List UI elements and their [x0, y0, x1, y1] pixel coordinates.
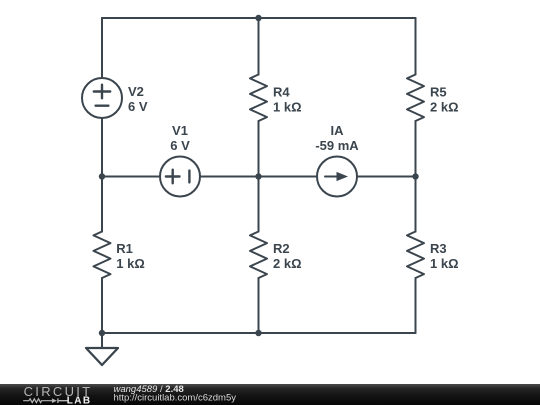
wire V1 to mid junction	[200, 176, 259, 178]
svg-text:6 V: 6 V	[128, 99, 148, 114]
svg-text:1 kΩ: 1 kΩ	[273, 100, 302, 115]
svg-text:V1: V1	[172, 123, 188, 138]
voltage source V1	[160, 157, 200, 197]
svg-text:LAB: LAB	[67, 396, 92, 405]
label R2 value	[273, 241, 302, 271]
node junction top	[255, 15, 261, 21]
label R3 value	[430, 241, 459, 271]
label R4 value	[273, 85, 302, 115]
svg-text:R4: R4	[273, 85, 290, 100]
node junction bottom-left	[99, 330, 105, 336]
wire mid column top lead	[258, 18, 260, 75]
CircuitLab logo diode arrow	[52, 398, 57, 403]
label V2 value	[128, 84, 148, 114]
svg-text:1 kΩ: 1 kΩ	[116, 256, 145, 271]
wire R4 to middle rail	[258, 121, 260, 177]
svg-text:2 kΩ: 2 kΩ	[430, 100, 459, 115]
current source IA	[317, 157, 357, 197]
wire V2 to middle rail	[101, 118, 103, 177]
CircuitLab logo squiggle wire	[23, 399, 52, 403]
wire left column top (to V2)	[101, 18, 103, 78]
svg-text:IA: IA	[331, 123, 345, 138]
footer bar	[0, 384, 540, 405]
wire right column top lead	[415, 18, 417, 75]
wire R5 to middle rail	[415, 121, 417, 177]
svg-text:R2: R2	[273, 241, 290, 256]
label IA value	[315, 123, 359, 153]
svg-text:1 kΩ: 1 kΩ	[430, 256, 459, 271]
resistor R1	[94, 232, 111, 279]
wire IA to right column	[357, 176, 416, 178]
wire R2 to bottom rail	[258, 278, 260, 333]
svg-text:http://circuitlab.com/c6zdm5y: http://circuitlab.com/c6zdm5y	[114, 393, 237, 404]
svg-text:R5: R5	[430, 85, 447, 100]
svg-text:-59 mA: -59 mA	[315, 138, 359, 153]
resistor R2	[250, 232, 267, 279]
resistor R3	[407, 232, 424, 279]
resistor R4	[250, 75, 267, 122]
svg-text:2 kΩ: 2 kΩ	[273, 256, 302, 271]
label V1 value	[170, 123, 190, 153]
wire top rail	[102, 17, 416, 19]
wire right column to R3	[415, 177, 417, 232]
node junction mid-left	[99, 173, 105, 179]
svg-text:R3: R3	[430, 241, 447, 256]
svg-text:R1: R1	[116, 241, 133, 256]
wire bottom rail	[102, 332, 416, 334]
ground	[86, 333, 118, 365]
resistor R5	[407, 75, 424, 122]
wire R1 to bottom rail	[101, 278, 103, 333]
svg-text:6 V: 6 V	[170, 138, 190, 153]
wire left column to R1	[101, 177, 103, 232]
wire mid column to R2	[258, 177, 260, 232]
wire R3 to bottom rail	[415, 278, 417, 333]
wire mid junction to IA	[259, 176, 318, 178]
voltage source V2	[82, 78, 122, 118]
label R5 value	[430, 85, 459, 115]
node junction bottom-center	[255, 330, 261, 336]
CircuitLab logo diode bar and wire	[58, 398, 68, 403]
wire middle rail left segment	[102, 176, 160, 178]
svg-text:V2: V2	[128, 84, 144, 99]
label R1 value	[116, 241, 145, 271]
node junction mid-right	[412, 173, 418, 179]
node junction mid-center	[255, 173, 261, 179]
